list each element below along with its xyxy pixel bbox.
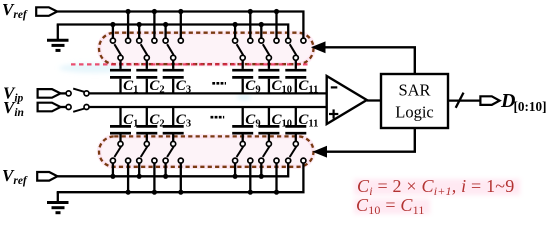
switch S1t throw contacts [110,38,130,60]
switch S10b contacts [259,141,279,163]
wire: bottom gnd bus [57,163,304,192]
input pin Vin [38,103,61,112]
arrowhead (top feedback) [311,41,326,53]
input pin Vref (top) [36,7,57,16]
arrowhead (bottom feedback) [312,146,327,158]
top DAC switch-bank highlight region (dashed stadium) [99,33,314,64]
annotation glow (decorative) [354,179,520,214]
output pin D [480,96,499,105]
ellipsis dots (top array) [212,82,226,85]
svg-text:[0:10]: [0:10] [514,99,547,114]
switch S2t wires [137,9,157,55]
switch S10b [259,146,279,194]
switch S1b [110,146,130,194]
wire: top gnd bus [57,25,289,39]
wire: top Vref bus [57,12,303,39]
capacitor C10 (bottom) [258,107,279,141]
capacitor C9 (bottom) [232,107,253,141]
highlight smudge (decorative) [59,63,251,100]
switch S11b contacts [286,141,306,163]
capacitor C3 (top) [163,60,184,93]
switch S11t wires [290,44,297,55]
capacitor C11 (bottom) [285,107,306,141]
minus input mark [331,86,338,88]
switch S2b contacts [137,141,157,163]
wire: data output [448,99,480,101]
switch S1t wires [110,9,130,55]
input pin Vref (bottom) [37,172,57,181]
switch S10t wires [259,9,279,55]
svg-text:SAR: SAR [398,81,430,100]
wire: Vip bus to comparator [89,92,326,94]
switch S9t wires [233,9,253,55]
ground (top) [47,25,69,51]
switch S9t throw contacts [233,38,253,60]
switch S2t throw contacts [137,38,157,60]
input pin Vip [38,89,61,98]
switch S3b [163,146,183,194]
capacitor C9 (top) [232,60,253,93]
switch S9b [233,146,253,194]
bottom DAC switch-bank highlight region (dashed stadium) [99,136,314,166]
capacitor C1 (bottom) [110,107,131,141]
svg-text:Logic: Logic [395,103,434,122]
capacitor C10 (top) [258,60,279,93]
capacitor C2 (bottom) [136,107,157,141]
ellipsis dots (bottom array) [211,116,225,119]
capacitor C1 (top) [110,60,131,93]
ground (bottom) [47,192,69,213]
wire: Vin bus to comparator [89,106,326,108]
switch S2b [137,146,157,194]
wire: top feedback from SAR to switches [325,47,415,74]
switch S3t throw contacts [163,38,183,60]
switch S11t throw contacts [286,38,306,60]
sampling switch (Vin) [61,105,90,112]
capacitor C2 (top) [136,60,157,93]
op-amp comparator U1 [327,76,367,124]
switch S3b contacts [163,141,183,163]
capacitor C11 (top) [285,60,306,93]
bus slash mark [456,93,464,108]
switch S10t throw contacts [259,38,279,60]
sampling switch (Vip) [61,89,90,96]
switch S11b [290,146,297,157]
SAR Logic block U2 [381,74,448,128]
wire: comparator output [367,99,381,101]
wire: bottom Vref bus [57,163,288,176]
wire: bottom feedback from SAR to switches [326,128,415,152]
switch S3t wires [163,9,183,55]
capacitor C3 (bottom) [163,107,184,141]
switch S9b contacts [233,141,253,163]
plus input mark [329,109,338,118]
switch S1b contacts [110,141,130,163]
magenta dashed overlay line [71,63,310,65]
